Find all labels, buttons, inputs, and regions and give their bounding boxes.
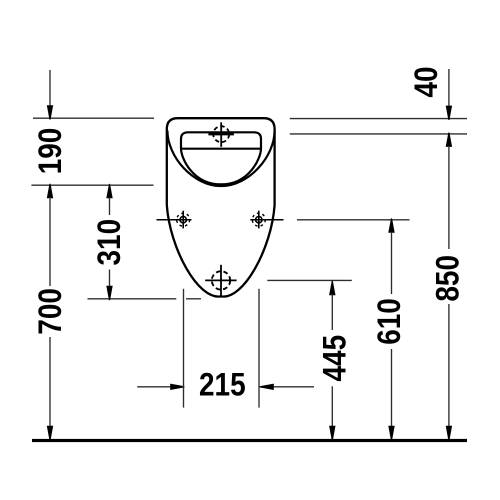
rim waterline xyxy=(182,148,261,150)
floor line xyxy=(32,439,467,442)
extension line from side holes to 610 xyxy=(297,219,410,221)
extension line top-right upper xyxy=(290,118,467,120)
svg-text:190: 190 xyxy=(33,128,68,175)
bottom outlet hole dashed circle xyxy=(212,271,230,289)
svg-text:445: 445 xyxy=(318,335,353,382)
extension line from bottom hole to 445 xyxy=(267,279,352,281)
left fixing hole dashed circle xyxy=(177,213,190,226)
svg-text:310: 310 xyxy=(92,219,127,266)
dimension 445 line (x=332.3) xyxy=(329,281,335,295)
215 extension line left xyxy=(183,289,185,408)
dimension 850 line upper part xyxy=(448,146,450,249)
top fixing hole dashed circle xyxy=(213,126,229,142)
urinal inner rim rect and inner bowl xyxy=(181,132,261,184)
svg-text:215: 215 xyxy=(199,368,246,403)
urinal outer bowl arc xyxy=(167,131,274,187)
extension line top-right lower xyxy=(290,133,467,135)
215 extension line right xyxy=(258,289,260,408)
bottom outlet hole crosshair vertical xyxy=(220,265,222,297)
svg-text:850: 850 xyxy=(431,255,466,302)
dimension 215 left arrow xyxy=(137,386,172,388)
dimension 215 right arrow xyxy=(272,386,314,388)
arrow down to top right line (40) xyxy=(446,106,452,120)
bottom outlet hole crosshair horizontal xyxy=(205,279,236,281)
dimension 40/850 line (x=448.9) upper segment xyxy=(448,69,450,106)
dimension 190/700 line (x=50) upper segment xyxy=(49,70,51,106)
dimension 610 line (x=391.5) xyxy=(388,218,394,232)
dimension 700 line lower part xyxy=(49,337,51,427)
extension line top-left (top of urinal) xyxy=(33,117,154,119)
svg-text:40: 40 xyxy=(409,66,444,97)
right fixing hole crosshair vertical xyxy=(258,211,260,229)
dimension 700 line upper part xyxy=(49,197,51,286)
top fixing hole crosshair horizontal xyxy=(208,133,234,135)
right fixing hole dashed circle xyxy=(252,213,265,226)
svg-text:700: 700 xyxy=(33,288,68,335)
urinal outer shell outline xyxy=(167,118,275,296)
right fixing hole ring xyxy=(256,217,262,223)
arrow up at 190 line xyxy=(47,184,53,198)
top fixing hole crosshair vertical xyxy=(220,122,222,147)
arrow down to top line xyxy=(47,105,53,119)
arrow down to floor (850) xyxy=(446,426,452,441)
left fixing hole ring xyxy=(180,217,186,223)
extension line under bowl (short right piece) xyxy=(186,298,201,300)
dimension 850 line lower part xyxy=(448,304,450,427)
dimension 310 line (x=109.5) xyxy=(106,184,112,198)
left fixing hole crosshair vertical xyxy=(182,211,184,229)
arrow down to floor (700) xyxy=(47,426,53,441)
extension line under bowl (left) xyxy=(88,298,177,300)
svg-text:610: 610 xyxy=(372,298,407,345)
right fixing hole crosshair horizontal xyxy=(250,219,283,221)
extension line left at 190 below top xyxy=(31,184,153,186)
left fixing hole crosshair horizontal xyxy=(157,219,192,221)
arrow up at lower right line (850) xyxy=(446,133,452,147)
